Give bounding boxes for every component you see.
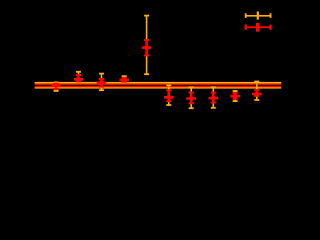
point 7 red (stat) error bar and marker <box>186 92 196 105</box>
point 5 orange (total) error bar <box>144 15 149 75</box>
point 2 orange (total) error bar <box>76 71 81 84</box>
point 10 red (stat) error bar and marker <box>252 89 262 97</box>
legend entry: red series <box>245 23 272 32</box>
point 10 orange (total) error bar <box>254 81 259 101</box>
orange band upper line <box>35 82 282 84</box>
point 4 red (stat) error bar and marker <box>119 77 129 83</box>
point 9 orange (total) error bar <box>233 90 238 102</box>
point 3 orange (total) error bar <box>99 73 104 91</box>
point 4 orange (total) error bar <box>122 75 127 83</box>
point 8 orange (total) error bar <box>211 86 216 108</box>
point 5 red (stat) error bar and marker <box>142 39 152 56</box>
orange band lower line <box>35 87 282 88</box>
point 1 red (stat) error bar and marker <box>51 83 61 90</box>
legend entry: orange series <box>245 12 272 20</box>
point 3 red (stat) error bar and marker <box>97 78 107 88</box>
red band lower line <box>35 86 282 87</box>
point 2 red (stat) error bar and marker <box>74 74 84 82</box>
point 6 red (stat) error bar and marker <box>164 89 174 102</box>
point 7 orange (total) error bar <box>189 86 194 109</box>
point 1 orange (total) error bar <box>54 82 59 92</box>
point 8 red (stat) error bar and marker <box>209 92 219 104</box>
red band upper line <box>35 84 282 85</box>
point 6 orange (total) error bar <box>166 84 171 106</box>
point 9 red (stat) error bar and marker <box>230 92 240 100</box>
